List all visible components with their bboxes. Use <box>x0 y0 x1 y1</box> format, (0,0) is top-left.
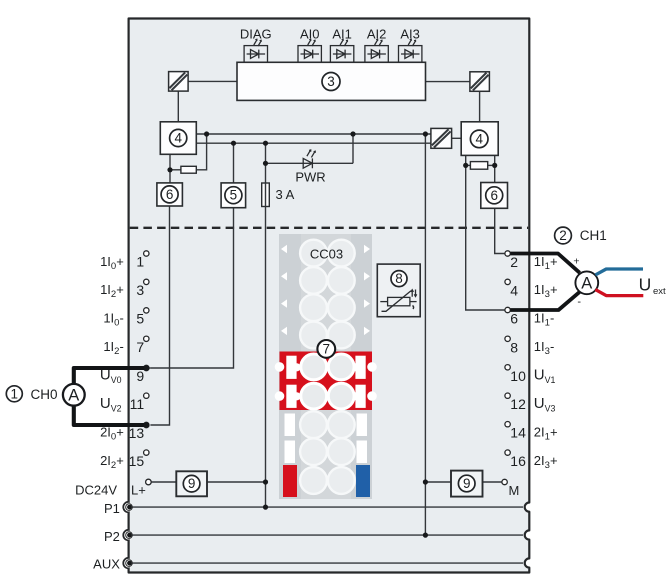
svg-text:1I2+: 1I2+ <box>100 282 124 300</box>
red coding key bottom left <box>283 465 297 497</box>
svg-text:1: 1 <box>11 386 19 401</box>
svg-text:5: 5 <box>230 188 238 203</box>
svg-text:1I2-: 1I2- <box>103 339 123 357</box>
svg-text:UV2: UV2 <box>100 395 122 413</box>
circled 2 <box>555 227 572 244</box>
AUX bus rail <box>130 562 523 564</box>
CC03 lower terminal rows <box>285 411 368 494</box>
svg-text:16: 16 <box>510 453 526 469</box>
pin 5 <box>144 308 149 313</box>
wire resistor-left right lead up to upper rail <box>196 134 206 170</box>
wire lower rail down to box5 top <box>233 143 235 183</box>
left terminal contact circles <box>144 251 152 485</box>
svg-text:AI1: AI1 <box>332 26 352 41</box>
LED AI3 <box>399 39 422 62</box>
svg-text:4: 4 <box>510 282 518 298</box>
pin 10 <box>505 365 510 370</box>
CC03 terminal block background <box>279 234 372 499</box>
shunt resistor right <box>470 162 487 170</box>
svg-text:6: 6 <box>510 311 518 327</box>
pin 2 <box>505 251 510 256</box>
svg-text:ext: ext <box>653 286 666 297</box>
svg-text:2I3+: 2I3+ <box>534 453 558 471</box>
svg-text:13: 13 <box>129 425 145 441</box>
wire box9L to fuse vertical <box>207 481 266 483</box>
CC03 grey terminal rows (upper) <box>300 240 355 349</box>
ADC box 4 right <box>461 122 498 156</box>
left pin numbers <box>129 254 145 469</box>
svg-text:2I0+: 2I0+ <box>100 425 124 443</box>
P2 left bump contact <box>123 530 130 541</box>
pin 8 <box>505 336 510 341</box>
wires (thin) <box>147 81 505 535</box>
pin 3 <box>144 279 149 284</box>
blue coding key bottom right <box>356 465 370 497</box>
right terminal labels <box>534 254 558 471</box>
box 3 (LED driver/display block) <box>237 62 426 100</box>
svg-text:9: 9 <box>463 476 471 491</box>
svg-text:DC24V: DC24V <box>75 483 117 498</box>
wire PWR branch up to upper rail <box>352 134 354 163</box>
pin 12 <box>505 393 510 398</box>
P1 left bump contact <box>123 502 130 513</box>
box 9 right <box>451 471 483 497</box>
svg-text:1I1+: 1I1+ <box>534 254 558 272</box>
CH1 measuring loop thick wires <box>510 254 580 311</box>
left terminal labels <box>75 254 124 498</box>
node resistor-right right dot <box>492 163 497 168</box>
node M-line/box9R junction <box>423 479 428 484</box>
svg-text:9: 9 <box>136 368 144 384</box>
isolation barrier right (top) <box>470 72 490 92</box>
pin 4 <box>505 279 510 284</box>
svg-text:L+: L+ <box>131 482 146 497</box>
LED AI1 <box>330 39 353 62</box>
wire ammeter CH0 to pin13 <box>74 405 145 425</box>
right terminal contact circles <box>502 251 510 485</box>
pin 11 <box>144 393 149 398</box>
node PWR tap on fuse line <box>263 161 268 166</box>
pin M <box>502 479 507 484</box>
module body outline with bus notches <box>129 19 530 573</box>
wire box5 down to pin 9 <box>150 208 233 368</box>
svg-text:U: U <box>639 274 652 294</box>
circled 7 on red block <box>317 340 335 358</box>
wire box6R down to pin 2 <box>495 208 505 253</box>
wire box6L down to pin 13 <box>150 206 169 425</box>
wire pin6 to ammeter CH1 <box>510 292 580 310</box>
node M-line/P2 junction <box>423 533 428 538</box>
svg-text:9: 9 <box>188 476 196 491</box>
wire upper rail box4L to iso-mid-right <box>196 133 431 135</box>
svg-text:10: 10 <box>510 368 526 384</box>
wire resistor-left left lead <box>170 169 181 171</box>
circled 3 <box>322 73 340 91</box>
node PWR/upper rail <box>350 131 355 136</box>
wire iso-mid-right to box4R <box>452 137 462 139</box>
dashed separator line <box>130 227 529 229</box>
wire box4R bottom-right down to box6R <box>494 155 496 182</box>
svg-text:7: 7 <box>136 339 144 355</box>
wire box3 to iso-right-top <box>426 81 470 83</box>
svg-text:14: 14 <box>510 425 526 441</box>
AUX left contact <box>126 560 133 567</box>
wire lower rail box4L to iso-mid-right <box>196 142 431 144</box>
svg-text:CH0: CH0 <box>31 387 58 402</box>
wire iso-right-top down to box4-right <box>479 91 481 122</box>
svg-text:8: 8 <box>395 271 403 286</box>
P1 left contact <box>126 504 133 511</box>
svg-text:DIAG: DIAG <box>240 26 272 41</box>
node box5/lower rail <box>231 141 236 146</box>
svg-text:12: 12 <box>510 396 526 412</box>
wire resistor-right left lead <box>466 164 471 166</box>
wire box9R to M terminal <box>483 481 503 483</box>
node L+/fuse junction <box>263 479 268 484</box>
wire iso-left to box3 <box>188 80 237 82</box>
svg-text:CC03: CC03 <box>310 247 343 262</box>
wire pin9 to ammeter CH0 <box>74 368 145 384</box>
blue wire to Uext <box>595 269 643 275</box>
right pin numbers <box>510 254 526 469</box>
svg-text:P1: P1 <box>104 501 120 516</box>
isolation barrier mid right <box>431 128 452 148</box>
ammeter CH1 <box>575 271 598 294</box>
svg-text:PWR: PWR <box>295 169 325 184</box>
P2 bus rail <box>130 534 523 536</box>
svg-text:AI0: AI0 <box>300 26 320 41</box>
node resistor-left tap <box>167 167 172 172</box>
svg-text:2: 2 <box>559 228 567 243</box>
pin 6 <box>505 307 510 312</box>
box 5 <box>221 183 246 208</box>
pin 16 <box>505 450 510 455</box>
shunt resistor left <box>181 166 196 173</box>
node pin13 wire end <box>144 422 150 428</box>
svg-text:2I2+: 2I2+ <box>100 453 124 471</box>
node fuse/lower rail <box>263 141 268 146</box>
pin 1 <box>144 251 149 256</box>
CC03 red coding section (item 7 zone) <box>275 352 377 411</box>
pin L+ <box>146 479 152 485</box>
svg-text:4: 4 <box>174 131 182 146</box>
svg-text:4: 4 <box>475 131 483 146</box>
LED indicator block U3 <box>237 62 426 100</box>
wire L+ terminal to box9L <box>151 481 176 483</box>
svg-text:P2: P2 <box>104 529 120 544</box>
node pin9 wire end <box>144 365 150 371</box>
wire pin2 to ammeter CH1 <box>510 254 579 273</box>
svg-text:UV3: UV3 <box>534 395 556 413</box>
P2 left contact <box>126 532 133 539</box>
svg-text:AI2: AI2 <box>367 26 387 41</box>
wire iso-left down to box4-left <box>177 91 179 122</box>
fuse 3A <box>262 183 270 207</box>
svg-text:6: 6 <box>166 187 174 202</box>
pin 15 <box>144 450 149 455</box>
wire box4R bottom-left down to pin 6 <box>466 155 505 310</box>
node M-line/upper rail <box>423 131 428 136</box>
svg-text:1I1-: 1I1- <box>534 310 554 328</box>
node fuse/P1 junction <box>263 505 268 510</box>
svg-text:2: 2 <box>510 254 518 270</box>
svg-text:-: - <box>577 296 581 308</box>
ammeter CH0 <box>63 384 85 406</box>
box 6 left <box>157 183 183 206</box>
svg-text:1I0-: 1I0- <box>103 311 123 329</box>
isolation barrier left (top) <box>169 72 189 92</box>
wire fuse branch top <box>265 143 267 183</box>
svg-text:3 A: 3 A <box>276 187 295 202</box>
pin 9 <box>144 365 149 370</box>
svg-text:1I3-: 1I3- <box>534 339 554 357</box>
AUX left bump contact <box>123 558 130 569</box>
box 6 right <box>481 183 508 209</box>
red wire to Uext <box>595 290 643 296</box>
pin 7 <box>144 336 149 341</box>
svg-text:2I1+: 2I1+ <box>534 425 558 443</box>
svg-text:AI3: AI3 <box>400 26 420 41</box>
svg-text:AUX: AUX <box>93 557 120 572</box>
svg-text:3: 3 <box>136 282 144 298</box>
wire box4L bottom down to box6L <box>169 154 171 183</box>
ADC box 4 left <box>160 122 196 155</box>
node resistor-left/upper rail <box>204 131 209 136</box>
LED PWR <box>303 150 315 168</box>
svg-text:5: 5 <box>136 311 144 327</box>
CH0 measuring loop thick wires <box>74 368 145 425</box>
wire resistor-right right lead <box>488 164 495 166</box>
svg-text:A: A <box>68 387 79 405</box>
svg-text:15: 15 <box>129 453 145 469</box>
wire PWR branch horizontal <box>266 162 354 164</box>
svg-text:3: 3 <box>327 74 335 89</box>
wire M vertical from upper rail to P2 <box>424 134 426 535</box>
box 9 left <box>176 471 207 496</box>
svg-text:CH1: CH1 <box>580 228 607 243</box>
box 8 (reference junction / thermistor) <box>377 264 420 317</box>
svg-text:7: 7 <box>323 341 331 356</box>
svg-text:1I3+: 1I3+ <box>534 282 558 300</box>
LED AI0 <box>298 39 321 62</box>
LED AI2 <box>365 39 388 62</box>
wire pin9 thin extension <box>147 367 151 369</box>
svg-text:M: M <box>509 483 520 498</box>
svg-text:6: 6 <box>490 188 498 203</box>
LED DIAG <box>244 39 267 62</box>
svg-text:A: A <box>581 275 592 293</box>
svg-text:8: 8 <box>510 339 518 355</box>
thermistor symbol in box 8 <box>380 290 417 312</box>
pin 14 <box>505 422 510 427</box>
P1 bus rail <box>130 507 523 563</box>
svg-text:UV1: UV1 <box>534 367 556 385</box>
wire M vertical to box9R <box>425 481 451 483</box>
pin 13 <box>144 422 149 427</box>
svg-text:1I0+: 1I0+ <box>100 254 124 272</box>
circled 1 <box>6 386 22 402</box>
svg-text:11: 11 <box>130 396 145 412</box>
node resistor-right left dot <box>463 163 468 168</box>
bus labels <box>93 501 120 572</box>
svg-text:1: 1 <box>136 254 144 270</box>
wire fuse down to L+ junction and P1 <box>265 207 267 508</box>
svg-text:+: + <box>573 255 579 267</box>
